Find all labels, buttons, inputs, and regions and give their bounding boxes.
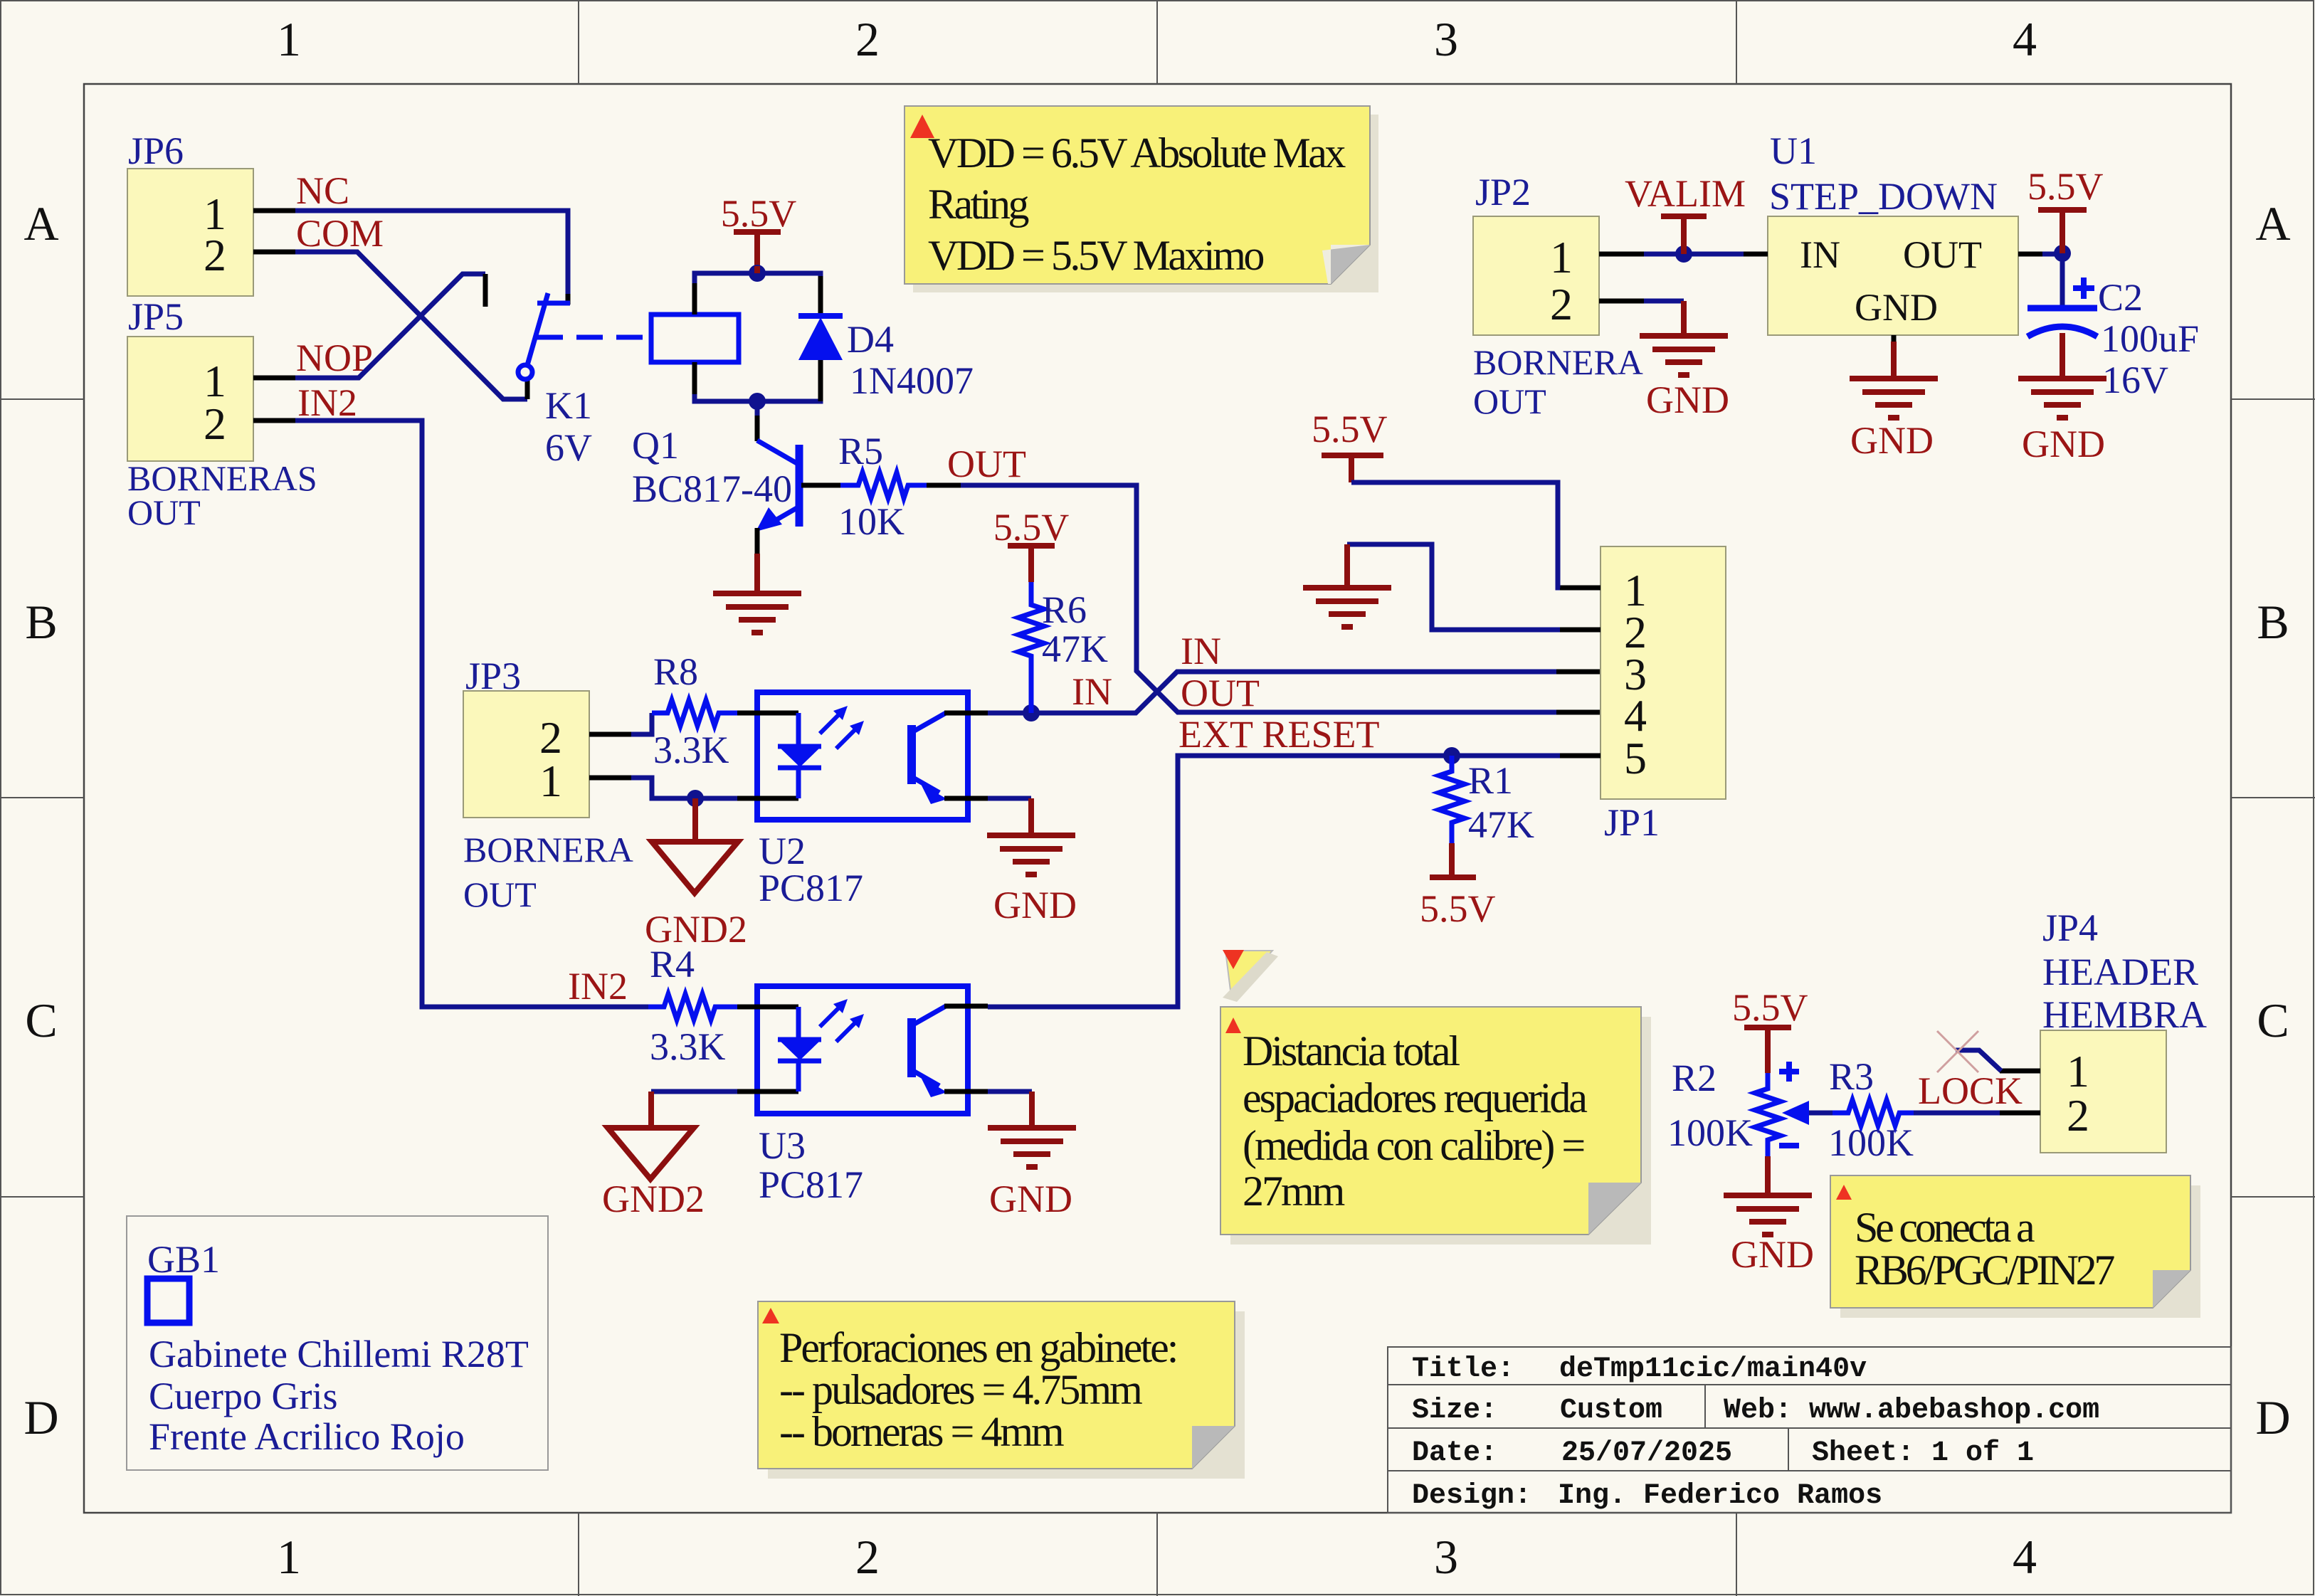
svg-text:GND: GND	[2022, 423, 2105, 465]
svg-text:2: 2	[204, 398, 226, 449]
connector JP2 pin 2 stub	[1599, 299, 1644, 304]
frame column tick bottom 2|3	[1156, 1513, 1158, 1596]
transistor Q1 collector pin	[755, 416, 760, 441]
svg-text:BC817-40: BC817-40	[632, 467, 792, 510]
connector JP1 pin 5 stub	[1556, 754, 1601, 759]
frame column tick top 2|3	[1156, 0, 1158, 84]
wire U2 emitter to ground	[988, 796, 1031, 801]
svg-text:GND: GND	[989, 1178, 1072, 1220]
svg-text:RB6/PGC/PIN27: RB6/PGC/PIN27	[1855, 1247, 2114, 1294]
svg-text:Q1: Q1	[632, 424, 679, 467]
svg-text:deTmp11cic/main40v: deTmp11cic/main40v	[1559, 1353, 1867, 1385]
svg-text:GND2: GND2	[602, 1178, 705, 1220]
connector JP4 pin 1 stub	[2000, 1069, 2040, 1074]
svg-text:U2: U2	[759, 830, 806, 872]
ground at U2 emitter	[987, 798, 1077, 926]
ground at C2	[2018, 379, 2106, 465]
resistor R5	[840, 472, 927, 498]
note N4 perforaciones	[758, 1301, 1245, 1479]
svg-text:U3: U3	[759, 1124, 806, 1167]
svg-text:IN2: IN2	[297, 381, 357, 424]
svg-text:-- pulsadores = 4.75mm: -- pulsadores = 4.75mm	[779, 1366, 1142, 1413]
power 5.5V (R2)	[1732, 986, 1808, 1073]
svg-text:A: A	[2255, 196, 2290, 250]
svg-text:5.5V: 5.5V	[993, 506, 1070, 549]
svg-text:1: 1	[277, 1530, 301, 1584]
svg-text:4: 4	[2013, 12, 2037, 66]
svg-text:Frente Acrilico Rojo: Frente Acrilico Rojo	[149, 1415, 465, 1458]
svg-text:BORNERA: BORNERA	[1473, 342, 1643, 382]
ground at U1 GND	[1850, 342, 1938, 462]
svg-text:A: A	[23, 196, 58, 250]
relay K1 common contact pin	[525, 380, 530, 399]
relay K1 coil pin bottom	[692, 362, 697, 396]
power 5.5V (C2)	[2027, 165, 2104, 253]
wire OUT net from R5	[961, 485, 1560, 712]
svg-text:D: D	[2255, 1390, 2290, 1444]
optocoupler U2	[737, 692, 988, 820]
IC U1 IN pin stub	[1744, 252, 1768, 257]
svg-text:OUT: OUT	[947, 443, 1026, 485]
svg-text:2: 2	[855, 1530, 880, 1584]
wire coil top bracket	[695, 273, 821, 283]
svg-text:GND: GND	[1731, 1233, 1814, 1276]
svg-text:2: 2	[2067, 1090, 2089, 1141]
relay K1 coil	[651, 315, 739, 362]
wire LOCK net	[1914, 1111, 2000, 1116]
ground at U3 emitter	[988, 1092, 1076, 1220]
wire JP1 pin1 to 5.5V	[1351, 482, 1560, 588]
junction dot R1 top	[1443, 747, 1460, 764]
note N1 VDD rating	[905, 106, 1378, 292]
svg-text:Size:: Size:	[1412, 1395, 1497, 1427]
svg-text:GB1: GB1	[147, 1238, 220, 1281]
IC U1 OUT pin stub	[2018, 252, 2042, 257]
svg-text:VDD = 6.5V Absolute Max: VDD = 6.5V Absolute Max	[928, 130, 1346, 176]
svg-text:3.3K: 3.3K	[653, 729, 729, 771]
IC U1 GND pin stub	[1892, 335, 1897, 344]
svg-text:R6: R6	[1042, 588, 1087, 631]
connector JP4	[2040, 907, 2207, 1153]
svg-text:Se conecta a: Se conecta a	[1855, 1204, 2035, 1251]
svg-text:OUT: OUT	[1473, 381, 1546, 421]
svg-text:HEMBRA: HEMBRA	[2042, 993, 2207, 1036]
note N2 corner marker icon	[1223, 950, 1278, 1002]
frame column tick bottom 1|2	[578, 1513, 579, 1596]
svg-text:IN: IN	[1800, 233, 1840, 276]
junction dot C2 top	[2054, 245, 2071, 262]
svg-text:Rating: Rating	[928, 181, 1028, 228]
svg-text:Perforaciones en gabinete:: Perforaciones en gabinete:	[779, 1324, 1176, 1371]
svg-text:3: 3	[1434, 1530, 1458, 1584]
svg-text:LOCK: LOCK	[1918, 1069, 2023, 1112]
junction dot GND2 tap (U2)	[687, 790, 704, 807]
wire EXT RESET net	[988, 756, 1560, 1007]
svg-text:1: 1	[539, 756, 562, 806]
svg-text:Gabinete Chillemi R28T: Gabinete Chillemi R28T	[149, 1333, 529, 1375]
connector JP5 pin 2 stub	[253, 418, 295, 423]
svg-text:100K: 100K	[1667, 1111, 1753, 1154]
frame row tick left B|C	[0, 797, 84, 798]
connector JP3 pin 2 stub	[589, 732, 631, 737]
wire NOP net	[295, 274, 485, 378]
svg-text:5.5V: 5.5V	[1420, 887, 1496, 930]
svg-text:IN2: IN2	[568, 965, 628, 1008]
svg-text:PC817: PC817	[759, 1163, 863, 1206]
svg-text:JP5: JP5	[128, 295, 184, 338]
connector JP3	[463, 655, 589, 818]
ground at JP2 pin2	[1640, 301, 1729, 421]
diode D4	[798, 316, 843, 360]
svg-text:BORNERA: BORNERA	[463, 830, 633, 870]
note N2 distancia espaciadores	[1220, 1007, 1651, 1244]
wire IN2 net vertical run	[295, 421, 648, 1007]
wire COM net	[295, 252, 527, 399]
svg-text:JP3: JP3	[465, 655, 521, 697]
svg-text:JP4: JP4	[2042, 907, 2098, 949]
svg-text:EXT RESET: EXT RESET	[1178, 713, 1380, 756]
svg-text:PC817: PC817	[759, 867, 863, 909]
svg-text:B: B	[2257, 595, 2289, 649]
svg-text:JP1: JP1	[1604, 801, 1660, 844]
frame row tick left A|B	[0, 398, 84, 400]
wire JP1 pin2 to ground	[1347, 544, 1560, 630]
transistor Q1 base pin	[801, 483, 840, 488]
wire U1 OUT to C2	[2042, 252, 2062, 257]
svg-text:10K: 10K	[838, 500, 905, 543]
transistor Q1	[756, 440, 799, 532]
relay K1 switch blade	[518, 293, 570, 379]
capacitor C2 bottom lead	[2060, 333, 2065, 379]
svg-text:4: 4	[2013, 1530, 2037, 1584]
cabinet GB1 box	[127, 1216, 548, 1470]
wire U3 emitter to ground	[988, 1089, 1032, 1094]
svg-text:STEP_DOWN: STEP_DOWN	[1769, 175, 1998, 218]
resistor R4	[648, 994, 737, 1020]
connector JP6 pin 2 stub	[253, 250, 295, 255]
svg-text:1: 1	[277, 12, 301, 66]
power 5.5V inverted (R1)	[1420, 843, 1496, 930]
wire JP3 pin1 to LED cathode	[631, 778, 737, 798]
svg-text:Title:: Title:	[1412, 1353, 1514, 1385]
svg-text:U1: U1	[1770, 130, 1817, 172]
frame row tick right C|D	[2231, 1196, 2315, 1198]
svg-text:1: 1	[2067, 1046, 2089, 1096]
svg-text:GND: GND	[1850, 419, 1934, 462]
resistor R5 right pin	[927, 483, 961, 488]
svg-text:27mm: 27mm	[1243, 1168, 1345, 1215]
wire collector riser	[755, 401, 760, 417]
wire R3 to R2 wiper	[1805, 1111, 1833, 1116]
svg-text:K1: K1	[545, 384, 592, 427]
label BORNERA OUT (JP2)	[1473, 342, 1643, 421]
svg-text:(medida con calibre) =: (medida con calibre) =	[1243, 1122, 1583, 1169]
ground at Q1 emitter	[713, 554, 801, 633]
junction dot relay bottom	[749, 393, 766, 410]
power 5.5V (R6)	[993, 506, 1070, 591]
optocoupler U3	[737, 986, 988, 1114]
junction dot relay top	[749, 265, 766, 282]
potentiometer R2	[1755, 1062, 1809, 1156]
resistor R1	[1439, 756, 1465, 843]
wire IN net	[988, 672, 1560, 713]
relay K1 coil pin top	[692, 282, 697, 315]
svg-text:IN: IN	[1072, 670, 1112, 713]
IC U1 step-down	[1768, 130, 2018, 335]
wire JP3 pin2 to R8	[631, 713, 652, 734]
relay K1 NO contact pin	[483, 274, 488, 307]
svg-text:HEADER: HEADER	[2042, 951, 2198, 993]
svg-text:GND: GND	[1646, 379, 1729, 421]
svg-text:GND: GND	[993, 884, 1077, 926]
diode D4 pin bottom	[818, 360, 823, 401]
svg-text:espaciadores requerida: espaciadores requerida	[1243, 1074, 1587, 1121]
svg-text:OUT: OUT	[463, 874, 537, 914]
svg-text:IN: IN	[1181, 630, 1221, 672]
connector JP1	[1601, 546, 1726, 844]
svg-text:GND: GND	[1855, 286, 1938, 329]
svg-text:OUT: OUT	[1181, 672, 1260, 714]
transistor Q1 emitter pin	[755, 528, 760, 555]
ground at R2	[1724, 1156, 1814, 1276]
frame column tick bottom 3|4	[1736, 1513, 1737, 1596]
note N3 se conecta	[1830, 1175, 2200, 1318]
svg-text:R5: R5	[838, 430, 883, 472]
svg-text:VDD = 5.5V Maximo: VDD = 5.5V Maximo	[928, 232, 1263, 279]
diode D4 pin top	[818, 276, 823, 316]
svg-text:VALIM: VALIM	[1625, 172, 1746, 215]
svg-text:5.5V: 5.5V	[1312, 408, 1388, 450]
power 5.5V (JP1 pin1)	[1312, 408, 1388, 482]
svg-text:25/07/2025: 25/07/2025	[1561, 1437, 1732, 1469]
junction dot VALIM	[1675, 245, 1692, 263]
svg-text:Ing. Federico Ramos: Ing. Federico Ramos	[1558, 1480, 1882, 1512]
wire JP4 pin1 bent stub	[1956, 1050, 2001, 1071]
connector JP5 pin 1 stub	[253, 376, 295, 381]
svg-text:47K: 47K	[1468, 803, 1534, 846]
wire coil bottom bracket	[695, 394, 821, 401]
connector JP1 pin 4 stub	[1556, 710, 1601, 715]
svg-text:Web: www.abebashop.com: Web: www.abebashop.com	[1724, 1395, 2099, 1427]
svg-text:Distancia total: Distancia total	[1243, 1027, 1460, 1074]
label BORNERAS OUT (JP5)	[127, 458, 317, 532]
connector JP1 pin 2 stub	[1556, 628, 1601, 633]
connector JP1 pin 1 stub	[1556, 586, 1601, 591]
svg-text:COM: COM	[296, 212, 384, 255]
connector JP1 pin 3 stub	[1556, 670, 1601, 675]
svg-text:100uF: 100uF	[2101, 317, 2199, 360]
junction dot R6 bottom	[1023, 704, 1040, 722]
svg-text:C: C	[2257, 993, 2289, 1047]
svg-text:5: 5	[1624, 733, 1647, 783]
resistor R3	[1833, 1100, 1914, 1126]
title block	[1388, 1347, 2231, 1513]
svg-text:R4: R4	[650, 943, 695, 985]
svg-text:6V: 6V	[545, 426, 592, 469]
svg-text:OUT: OUT	[127, 492, 201, 532]
connector JP3 pin 1 stub	[589, 776, 631, 781]
svg-text:5.5V: 5.5V	[2027, 165, 2104, 208]
svg-text:-- borneras = 4mm: -- borneras = 4mm	[779, 1408, 1064, 1455]
svg-text:47K: 47K	[1042, 628, 1108, 670]
relay K1 coupling dashed line	[537, 335, 651, 340]
wire U3 cathode to GND2	[651, 1089, 737, 1094]
svg-text:2: 2	[855, 12, 880, 66]
frame row tick left C|D	[0, 1196, 84, 1198]
frame column tick top 3|4	[1736, 0, 1737, 84]
frame row tick right A|B	[2231, 398, 2315, 400]
svg-text:2: 2	[204, 230, 226, 280]
svg-text:5.5V: 5.5V	[721, 192, 797, 235]
wire C2 top lead	[2060, 253, 2065, 306]
svg-text:R2: R2	[1672, 1057, 1717, 1099]
svg-text:Custom: Custom	[1560, 1395, 1662, 1427]
svg-text:16V: 16V	[2102, 359, 2168, 401]
svg-text:B: B	[25, 595, 57, 649]
svg-text:3: 3	[1434, 12, 1458, 66]
svg-text:R8: R8	[653, 650, 698, 693]
svg-text:NC: NC	[296, 169, 349, 212]
connector JP2 pin 1 stub	[1599, 252, 1644, 257]
wire JP2 pin1 to U1 IN	[1644, 252, 1744, 257]
svg-text:D: D	[23, 1390, 58, 1444]
label BORNERA OUT (JP3)	[463, 830, 633, 914]
svg-text:R3: R3	[1829, 1055, 1874, 1098]
ground GND2 (U3)	[602, 1092, 705, 1220]
svg-text:Date:: Date:	[1412, 1437, 1497, 1469]
no-connect cross mark	[1937, 1031, 1978, 1072]
resistor R8	[652, 700, 737, 726]
connector JP2	[1473, 171, 1599, 335]
wire 5.5V stem to top bracket	[754, 266, 760, 273]
resistor R6	[1018, 591, 1044, 713]
svg-text:Sheet: 1 of 1: Sheet: 1 of 1	[1812, 1437, 2034, 1469]
svg-text:R1: R1	[1468, 759, 1513, 802]
svg-text:100K: 100K	[1828, 1121, 1914, 1164]
svg-text:2: 2	[1550, 279, 1573, 329]
svg-text:D4: D4	[847, 318, 894, 361]
svg-text:Design:: Design:	[1412, 1480, 1531, 1512]
capacitor C2	[2027, 278, 2097, 337]
wire JP2 pin2 to ground	[1644, 299, 1684, 304]
svg-text:C: C	[25, 993, 57, 1047]
svg-text:OUT: OUT	[1903, 233, 1982, 276]
power 5.5V (relay)	[721, 192, 797, 266]
svg-text:JP6: JP6	[128, 130, 184, 172]
svg-text:3.3K: 3.3K	[650, 1025, 726, 1068]
ground GND2 (U2)	[645, 798, 747, 951]
connector JP6	[127, 130, 253, 296]
svg-text:5.5V: 5.5V	[1732, 986, 1808, 1029]
wire NC net	[295, 211, 568, 297]
connector JP6 pin 1 stub	[253, 208, 295, 213]
relay K1 NC contact pin	[566, 294, 571, 305]
power VALIM	[1625, 172, 1746, 254]
ground at JP1 pin2	[1303, 544, 1391, 627]
svg-text:Cuerpo Gris: Cuerpo Gris	[149, 1375, 337, 1417]
svg-text:C2: C2	[2098, 276, 2143, 319]
connector JP5	[127, 295, 253, 461]
svg-text:1N4007: 1N4007	[850, 359, 974, 402]
svg-text:1: 1	[1550, 232, 1573, 282]
svg-text:JP2: JP2	[1475, 171, 1531, 213]
frame row tick right B|C	[2231, 797, 2315, 798]
connector JP4 pin 2 stub	[2000, 1111, 2040, 1116]
frame column tick top 1|2	[578, 0, 579, 84]
